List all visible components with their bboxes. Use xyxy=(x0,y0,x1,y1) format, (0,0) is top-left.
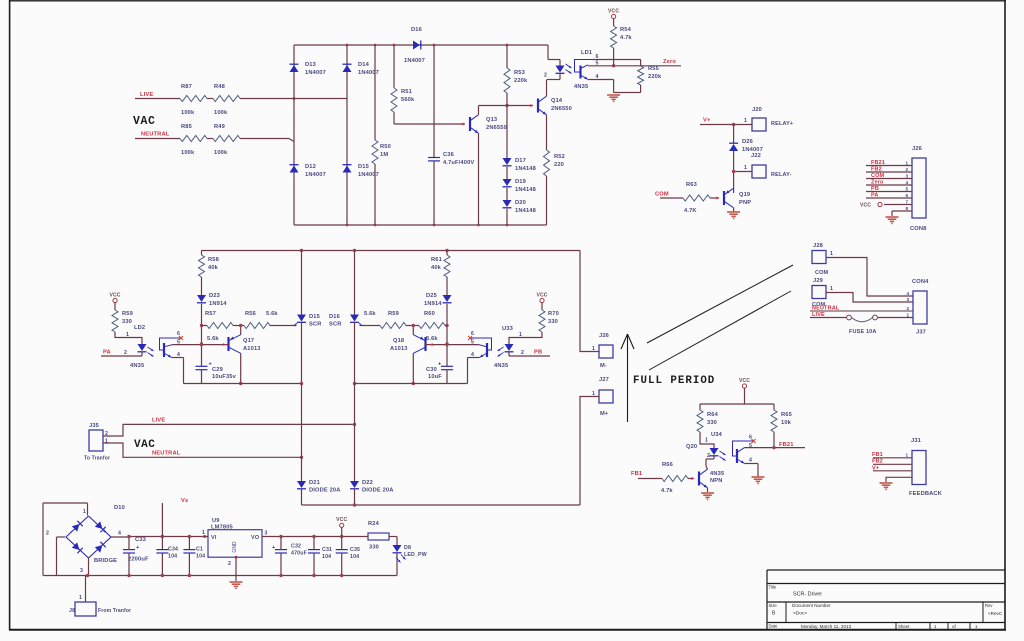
svg-text:+: + xyxy=(438,362,441,368)
resistor R53 xyxy=(504,45,528,158)
capacitor C32 xyxy=(272,537,308,576)
transistor Q14 xyxy=(538,96,572,115)
resistor R70 xyxy=(539,310,559,332)
svg-text:R59: R59 xyxy=(122,311,133,317)
power VCC U33 xyxy=(536,292,547,310)
svg-text:M+: M+ xyxy=(600,411,609,417)
svg-text:100k: 100k xyxy=(181,150,195,156)
title block texts xyxy=(769,585,1003,630)
page border frame bottom xyxy=(9,629,1006,631)
diode D15b xyxy=(343,164,379,178)
svg-text:Title: Title xyxy=(769,585,777,590)
wire SCR column right down xyxy=(354,384,356,482)
wire Q13 base xyxy=(394,123,466,126)
diode D25 xyxy=(424,293,452,307)
svg-text:4: 4 xyxy=(749,458,752,464)
wire column D23 to C29 xyxy=(200,304,203,367)
svg-text:5: 5 xyxy=(177,340,180,346)
svg-text:5: 5 xyxy=(471,340,474,346)
wire D20 to rail xyxy=(506,209,508,225)
wire NEUTRAL mid xyxy=(103,443,303,459)
wire J28 to CON4 xyxy=(826,258,913,297)
svg-text:C34: C34 xyxy=(168,547,178,553)
svg-text:220k: 220k xyxy=(648,74,662,80)
svg-text:R50: R50 xyxy=(380,144,391,150)
svg-text:3: 3 xyxy=(906,174,909,179)
svg-text:FUSE 10A: FUSE 10A xyxy=(849,329,877,335)
svg-text:8: 8 xyxy=(906,206,909,211)
wire U33 collector to Q18 base xyxy=(426,343,479,346)
wire bridge right column xyxy=(346,45,348,225)
transistor Q13 xyxy=(470,115,507,134)
opto U34 LED xyxy=(706,448,719,463)
wire R59b-R60 junction down xyxy=(412,324,415,335)
svg-text:PA: PA xyxy=(871,192,879,198)
connector CON4 box xyxy=(912,279,929,336)
svg-text:3: 3 xyxy=(265,531,268,537)
svg-text:CON4: CON4 xyxy=(912,279,929,285)
svg-text:J37: J37 xyxy=(916,330,926,336)
svg-text:R70: R70 xyxy=(548,311,559,317)
transistor Q17 xyxy=(229,335,261,354)
svg-text:220k: 220k xyxy=(514,78,528,84)
power VCC U34 xyxy=(739,378,750,404)
wire D19-D20 xyxy=(506,188,508,200)
wire PSU main rail xyxy=(127,535,208,538)
opto LD2 label xyxy=(134,325,145,331)
connector J26 CON8 box xyxy=(910,146,927,232)
svg-text:1: 1 xyxy=(592,346,595,352)
resistor R58 xyxy=(199,251,219,296)
svg-text:5.6k: 5.6k xyxy=(364,311,376,317)
capacitor C29 xyxy=(196,362,237,384)
svg-text:V+: V+ xyxy=(703,118,711,124)
transistor Q19 xyxy=(724,188,751,208)
wire R70 to U33 pin1 xyxy=(509,332,542,344)
svg-text:Q19: Q19 xyxy=(739,192,750,198)
svg-text:COM: COM xyxy=(871,173,885,179)
wire Q20 emitter down xyxy=(707,488,709,492)
wire J31 pin2 xyxy=(873,463,912,465)
svg-text:2N6550: 2N6550 xyxy=(551,106,572,112)
svg-text:R87: R87 xyxy=(181,84,192,90)
svg-text:4N35: 4N35 xyxy=(494,363,509,369)
wire LD2 emitter to rail xyxy=(172,358,184,384)
svg-text:J28: J28 xyxy=(813,243,823,249)
wire J29 to CON4 xyxy=(826,293,913,303)
svg-text:R61: R61 xyxy=(431,257,443,263)
svg-text:2: 2 xyxy=(707,453,710,459)
svg-text:J27: J27 xyxy=(599,377,609,383)
wire Q17 collector down xyxy=(239,353,242,385)
transistor Q20 label xyxy=(686,444,697,450)
svg-text:1N4007: 1N4007 xyxy=(305,172,326,178)
svg-text:J29: J29 xyxy=(813,278,823,284)
connector J27 M+ xyxy=(592,377,613,417)
ground near LD1 xyxy=(607,95,620,101)
resistor R60 xyxy=(419,311,447,342)
svg-text:Zero: Zero xyxy=(663,59,676,65)
svg-text:To Tranfor: To Tranfor xyxy=(84,456,110,462)
opto LD1 light arrows xyxy=(566,64,572,74)
diagonal line upper xyxy=(647,265,793,343)
SCR D15 xyxy=(294,251,322,386)
svg-text:B: B xyxy=(772,611,776,617)
svg-text:1: 1 xyxy=(906,453,909,458)
svg-text:4.7k: 4.7k xyxy=(661,488,673,494)
arrow FULL PERIOD xyxy=(621,334,634,422)
svg-text:D17: D17 xyxy=(515,158,526,164)
svg-text:DIODE 20A: DIODE 20A xyxy=(309,488,341,494)
svg-text:VCC: VCC xyxy=(608,8,619,14)
diode D26 xyxy=(729,125,763,194)
svg-text:104: 104 xyxy=(322,554,331,560)
svg-text:PA: PA xyxy=(103,350,111,356)
resistor R52 xyxy=(544,150,565,176)
ground at CON8 xyxy=(886,217,899,223)
svg-text:R57: R57 xyxy=(205,311,216,317)
svg-text:D21: D21 xyxy=(309,480,321,486)
resistor R50 xyxy=(372,45,391,225)
resistor R51 xyxy=(391,45,415,124)
svg-text:2: 2 xyxy=(907,306,910,311)
svg-text:1: 1 xyxy=(83,509,86,515)
svg-text:RELAY-: RELAY- xyxy=(771,172,792,178)
svg-text:2: 2 xyxy=(124,350,127,356)
svg-text:PB: PB xyxy=(534,350,542,356)
svg-text:FB2: FB2 xyxy=(871,166,882,172)
connector J28 xyxy=(812,243,833,276)
ground at J31 xyxy=(880,483,893,489)
svg-text:6: 6 xyxy=(177,331,180,337)
svg-text:R66: R66 xyxy=(662,462,673,468)
resistor R66 xyxy=(661,462,688,494)
svg-text:J20: J20 xyxy=(752,107,762,113)
wire NEUTRAL to CON4 xyxy=(810,310,913,312)
svg-text:D13: D13 xyxy=(305,62,316,68)
svg-text:GND: GND xyxy=(232,541,238,553)
svg-text:R51: R51 xyxy=(401,89,413,95)
wire column D25 to C30 xyxy=(445,304,448,367)
svg-text:FEEDBACK: FEEDBACK xyxy=(909,491,943,497)
svg-text:J35: J35 xyxy=(89,423,100,429)
svg-text:10uF35v: 10uF35v xyxy=(212,374,237,380)
resistor R59 xyxy=(112,310,133,332)
svg-text:J31: J31 xyxy=(911,438,922,444)
svg-text:40k: 40k xyxy=(431,265,442,271)
svg-text:A1013: A1013 xyxy=(243,346,261,352)
svg-text:J8: J8 xyxy=(69,608,75,614)
wire D17-D19 xyxy=(506,167,508,179)
svg-text:VI: VI xyxy=(211,535,217,541)
opto U33 transistor xyxy=(468,331,509,369)
wire U33 emitter to rail xyxy=(468,358,480,384)
net label PA xyxy=(103,350,111,356)
svg-text:3: 3 xyxy=(80,568,83,574)
svg-text:2: 2 xyxy=(46,531,49,537)
svg-text:+: + xyxy=(103,529,107,535)
net label FB1 J31 xyxy=(872,452,883,458)
wire SCR column left down xyxy=(301,384,303,482)
svg-text:R65: R65 xyxy=(781,412,793,418)
net label FB2 J31 xyxy=(872,459,883,465)
connector J26 M- xyxy=(592,333,613,369)
svg-text:+: + xyxy=(272,545,275,551)
resistor R65 xyxy=(771,404,793,448)
svg-text:VAC: VAC xyxy=(134,439,155,451)
svg-text:104: 104 xyxy=(350,554,359,560)
svg-text:D22: D22 xyxy=(362,480,373,486)
fuse FUSE 10A xyxy=(847,315,878,335)
svg-text:Q14: Q14 xyxy=(551,98,563,104)
svg-text:R64: R64 xyxy=(707,412,719,418)
svg-text:LIVE: LIVE xyxy=(140,92,153,98)
opto LD2 LED xyxy=(101,344,147,356)
connector J29 xyxy=(812,278,833,299)
svg-text:R85: R85 xyxy=(181,124,193,130)
wire motor bottom rail xyxy=(302,503,581,506)
svg-text:Document Number: Document Number xyxy=(792,603,831,608)
svg-text:R24: R24 xyxy=(368,521,380,527)
svg-text:+: + xyxy=(136,545,139,551)
power VCC LD2 xyxy=(109,292,120,310)
resistor R87 xyxy=(180,84,207,116)
svg-text:D12: D12 xyxy=(305,164,316,170)
svg-text:1: 1 xyxy=(744,165,747,171)
svg-text:LD1: LD1 xyxy=(581,50,593,56)
diode D16 xyxy=(404,27,425,64)
net label V+ relay xyxy=(703,118,711,124)
diode D20 xyxy=(503,200,536,214)
svg-text:J22: J22 xyxy=(751,153,761,159)
wire U9 GND to ground xyxy=(235,556,238,581)
transistor Q18 xyxy=(390,335,426,354)
wire bridge left column xyxy=(293,45,295,225)
svg-text:VCC: VCC xyxy=(109,292,120,298)
svg-text:100k: 100k xyxy=(181,110,195,116)
svg-text:VCC: VCC xyxy=(336,517,347,523)
svg-text:NPN: NPN xyxy=(710,478,723,484)
net label Vs xyxy=(181,498,188,504)
SCR D16 xyxy=(329,251,362,386)
resistor R54 xyxy=(611,26,633,66)
svg-text:LM7805: LM7805 xyxy=(211,524,234,530)
connector J22 xyxy=(732,153,792,178)
wire LIVE input xyxy=(135,97,347,100)
svg-text:Size: Size xyxy=(769,603,778,608)
svg-text:4N35: 4N35 xyxy=(130,363,145,369)
wire middle left bottom rail xyxy=(184,383,302,385)
wire top rail of detector xyxy=(294,44,548,47)
wire J31 pin3 xyxy=(873,470,912,472)
svg-text:1: 1 xyxy=(830,251,833,257)
svg-text:D23: D23 xyxy=(209,293,220,299)
diagonal line lower xyxy=(649,291,791,370)
connector J8 xyxy=(69,576,131,617)
resistor R63 xyxy=(683,182,710,214)
svg-text:2: 2 xyxy=(906,167,909,172)
net label COM relay xyxy=(655,192,669,198)
svg-text:1N914: 1N914 xyxy=(424,301,442,307)
connector J31 box xyxy=(909,438,943,497)
connector J20 xyxy=(744,107,793,131)
svg-text:4: 4 xyxy=(906,180,909,185)
net label PB xyxy=(534,350,542,356)
net label NEUTRAL mid xyxy=(152,451,181,457)
svg-text:5.6k: 5.6k xyxy=(426,336,438,342)
svg-text:J26: J26 xyxy=(912,146,922,152)
svg-text:Sheet: Sheet xyxy=(898,624,910,629)
svg-text:4: 4 xyxy=(907,291,910,296)
power VCC PSU xyxy=(336,517,347,536)
resistor R56 xyxy=(244,311,297,329)
diode D12 xyxy=(290,164,326,178)
wire bridge to rail xyxy=(89,537,130,576)
svg-text:VCC: VCC xyxy=(739,378,750,384)
opto LD1 LED xyxy=(544,66,565,80)
svg-text:NEUTRAL: NEUTRAL xyxy=(141,132,170,138)
svg-text:VCC: VCC xyxy=(860,203,871,209)
wire Q19 emitter-collector xyxy=(733,208,735,212)
diode D19 xyxy=(503,179,536,193)
text VAC xyxy=(133,115,156,128)
svg-text:1: 1 xyxy=(519,332,522,338)
wire top rail to M- xyxy=(580,251,599,352)
svg-text:470uF: 470uF xyxy=(291,551,308,557)
svg-text:4.7k: 4.7k xyxy=(620,35,632,41)
svg-text:R53: R53 xyxy=(514,70,525,76)
opto U33 light arrows xyxy=(498,347,504,357)
svg-text:1N4007: 1N4007 xyxy=(358,70,379,76)
svg-text:5: 5 xyxy=(906,187,909,192)
svg-text:D16: D16 xyxy=(411,27,422,33)
svg-text:4.7K: 4.7K xyxy=(684,208,697,214)
resistor R85 xyxy=(180,124,207,156)
svg-text:1N4148: 1N4148 xyxy=(515,166,536,172)
svg-text:1: 1 xyxy=(975,624,978,629)
wire LD2 collector to Q17 base xyxy=(173,343,229,346)
ground under U34 xyxy=(752,477,765,483)
svg-text:R54: R54 xyxy=(620,27,632,33)
opto LD1 label xyxy=(581,50,593,56)
svg-text:2200uF: 2200uF xyxy=(128,557,149,563)
wire LIVE to fuse xyxy=(810,317,913,319)
wire Q19 base xyxy=(660,197,720,200)
power VCC top xyxy=(608,8,619,26)
svg-text:R63: R63 xyxy=(686,182,697,188)
svg-text:C29: C29 xyxy=(212,367,223,373)
svg-text:R52: R52 xyxy=(554,154,565,160)
svg-text:330: 330 xyxy=(369,545,379,551)
svg-text:D8: D8 xyxy=(404,545,411,551)
page border frame left xyxy=(9,0,11,630)
svg-text:M-: M- xyxy=(600,363,607,369)
svg-text:SCR- Driver: SCR- Driver xyxy=(793,592,822,598)
svg-text:RELAY+: RELAY+ xyxy=(771,121,793,127)
svg-text:FB1: FB1 xyxy=(631,471,643,477)
svg-text:560k: 560k xyxy=(401,97,415,103)
resistor R24 box xyxy=(368,521,389,551)
resistor R59b xyxy=(362,311,419,329)
opto U34 label xyxy=(711,432,723,438)
opto U33 LED xyxy=(505,344,551,356)
diode D13 xyxy=(290,62,326,76)
wire R24 to LED xyxy=(389,537,397,546)
svg-text:PB: PB xyxy=(871,186,879,192)
svg-text:2: 2 xyxy=(521,350,524,356)
svg-text:4N35: 4N35 xyxy=(710,471,725,477)
capacitor C30 xyxy=(426,362,453,384)
svg-text:6: 6 xyxy=(749,435,752,441)
CON4 pin numbers xyxy=(907,291,910,318)
diode D22 xyxy=(350,480,394,505)
svg-text:NEUTRAL: NEUTRAL xyxy=(152,451,181,457)
svg-text:U34: U34 xyxy=(711,432,723,438)
opto U34 light arrows xyxy=(720,451,726,461)
svg-text:R55: R55 xyxy=(648,66,660,72)
transistor Q20 xyxy=(699,469,725,488)
svg-text:C36: C36 xyxy=(443,152,454,158)
ground under Q20 xyxy=(701,493,714,499)
svg-text:1N4007: 1N4007 xyxy=(305,70,326,76)
svg-text:104: 104 xyxy=(196,554,205,560)
capacitor C35 xyxy=(336,537,360,576)
svg-text:Vs: Vs xyxy=(181,498,188,504)
wire PSU bottom rail xyxy=(43,574,397,577)
opto LD1 transistor xyxy=(574,54,599,90)
page border frame right xyxy=(1004,0,1006,630)
net label FB1 xyxy=(631,471,643,477)
svg-text:1N4148: 1N4148 xyxy=(515,208,536,214)
svg-text:10uF: 10uF xyxy=(428,374,442,380)
svg-text:VCC: VCC xyxy=(536,292,547,298)
wire bottom rail of detector xyxy=(294,224,547,227)
svg-text:7: 7 xyxy=(906,200,909,205)
svg-text:BRIDGE: BRIDGE xyxy=(94,558,117,564)
svg-text:5.6k: 5.6k xyxy=(266,311,278,317)
svg-text:Rev: Rev xyxy=(985,603,993,608)
svg-text:R48: R48 xyxy=(214,84,225,90)
wire J31 pin4 to ground xyxy=(886,477,912,482)
wire Q13 emitter to rail xyxy=(478,133,480,225)
svg-text:<Doc>: <Doc> xyxy=(793,611,807,617)
net label COM con4 xyxy=(812,302,826,308)
diode D14 xyxy=(343,62,379,76)
svg-text:Q13: Q13 xyxy=(486,117,497,123)
svg-text:Zero: Zero xyxy=(871,179,884,185)
svg-text:2: 2 xyxy=(228,561,231,567)
svg-text:1N4007: 1N4007 xyxy=(358,172,379,178)
svg-text:PNP: PNP xyxy=(739,200,751,206)
wire VCC split U34 xyxy=(700,403,774,405)
net label V+ J31 xyxy=(872,465,879,471)
opto U33 label xyxy=(502,326,513,332)
svg-text:C30: C30 xyxy=(426,367,437,373)
wire R64 to U34 pin1 xyxy=(700,432,714,448)
svg-text:D16: D16 xyxy=(329,314,340,320)
wire middle top rail xyxy=(202,249,581,252)
ground under U9 xyxy=(230,582,243,588)
wire Q14 emitter to rail xyxy=(546,115,548,225)
opto U34 transistor xyxy=(733,435,756,464)
wire Q14 collector xyxy=(546,80,548,97)
power VCC at CON8 xyxy=(860,200,912,209)
svg-text:Q20: Q20 xyxy=(686,444,697,450)
svg-text:1: 1 xyxy=(705,438,708,444)
net label NEUTRAL con4 xyxy=(812,306,840,312)
page border frame top xyxy=(9,0,1006,2)
svg-text:LIVE: LIVE xyxy=(152,418,165,424)
